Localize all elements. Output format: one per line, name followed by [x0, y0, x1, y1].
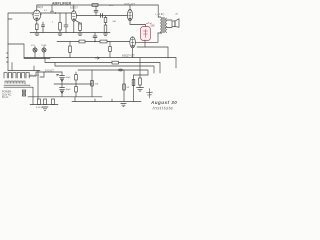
triode V2 envelope	[71, 11, 76, 22]
capacitor C4 decoupling	[94, 11, 98, 16]
resistor R12	[52, 99, 55, 105]
node dot C6	[94, 41, 95, 42]
wire: T1 leads right	[25, 76, 36, 87]
ground hatch R3	[58, 34, 62, 36]
wire: hatch left of C7	[57, 75, 59, 76]
wire: drop x140	[139, 58, 141, 78]
wire: input tick	[8, 18, 12, 20]
ground GND2	[42, 107, 48, 110]
capacitor C3 coupling	[51, 11, 54, 13]
svg-text:+35: +35	[175, 14, 179, 16]
resistor R11	[44, 99, 47, 105]
resistor R8b horizontal	[79, 40, 85, 43]
wire: mains pair	[33, 71, 38, 105]
fuse F1	[23, 90, 26, 96]
svg-text:40μF: 40μF	[66, 77, 72, 79]
resistor R2 V1 cathode	[36, 24, 39, 30]
T1 core lines	[4, 85, 30, 87]
wire: V1 cathode parts to bus	[35, 30, 43, 36]
choke on y70 line	[118, 69, 124, 72]
svg-text:August 30: August 30	[150, 100, 177, 105]
resistor R17	[132, 80, 135, 86]
capacitor C8 electrolytic	[60, 84, 65, 97]
wire: V3 cathode to red pot	[130, 21, 146, 27]
node junction dot	[55, 12, 57, 14]
wire: plate branch drop x52	[51, 5, 53, 11]
output transformer T2	[158, 17, 167, 33]
wire: V4 grid line left	[57, 41, 130, 43]
svg-text:Institute: Institute	[153, 106, 174, 111]
ground hatch R7	[104, 34, 108, 36]
wire: bottom bus y104.5	[30, 104, 58, 106]
svg-text:AMPLIFIER: AMPLIFIER	[52, 2, 72, 6]
svg-text:( ~ λ Φ ): ( ~ λ Φ )	[156, 13, 165, 16]
arrow on bus	[95, 57, 99, 59]
beam tube V3 envelope	[127, 10, 132, 21]
wire: rect top line	[44, 71, 62, 73]
wire: V2 cathode chain	[75, 20, 80, 25]
resistor R6 on rail	[92, 4, 98, 7]
resistor R5 V2 cathode	[79, 23, 82, 31]
wire: y47 line to right corner	[137, 47, 168, 58]
ground hatch R5	[78, 34, 82, 36]
V2 base shading	[73, 18, 75, 20]
resistor R7 vertical	[104, 16, 107, 33]
wire: tick x112	[111, 99, 113, 102]
svg-text:.5M: .5M	[112, 21, 116, 23]
resistor R3 vertical	[59, 13, 62, 33]
capacitor C5 coupling	[101, 14, 103, 18]
resistor R14	[75, 84, 78, 97]
wire: bottom bus y96.5	[28, 96, 102, 98]
wire: B+ top rail	[37, 4, 158, 6]
svg-text:6SQ7: 6SQ7	[37, 5, 44, 9]
svg-text:6SQ7-GT: 6SQ7-GT	[122, 54, 135, 58]
svg-text:40μF: 40μF	[66, 89, 72, 91]
wire: tick bus A-B x75	[74, 97, 76, 102]
capacitor C3b grid	[64, 13, 68, 33]
wire: V2 to V3 coupling	[76, 15, 127, 17]
svg-text:5K: 5K	[127, 87, 130, 89]
wire: ground bus y32.5 upper	[30, 32, 110, 34]
V3 base shading	[129, 18, 131, 20]
wire: V2 bottom to bus	[73, 21, 75, 32]
V1 electrodes	[32, 10, 42, 16]
svg-text:60 c/s: 60 c/s	[2, 96, 9, 99]
V3 electrodes	[129, 10, 132, 19]
resistor R15	[91, 81, 94, 87]
wire: bus y62.5	[45, 58, 160, 74]
wire: PS loop verticals	[92, 70, 134, 102]
svg-text:TONE: TONE	[41, 45, 47, 47]
svg-text:350-0-350: 350-0-350	[30, 75, 40, 77]
T1 primary winding	[5, 81, 25, 83]
mark cross flourish	[147, 89, 153, 99]
wire: rail corner down to output transformer	[157, 5, 159, 17]
svg-text:6V6-GT: 6V6-GT	[125, 2, 136, 6]
wire: lower-left branch	[8, 44, 24, 58]
wire: V1 plate to rail	[36, 5, 38, 10]
V4 electrodes	[131, 37, 134, 45]
svg-text:.1: .1	[52, 22, 55, 24]
svg-text:10K: 10K	[95, 84, 99, 86]
svg-text:320V: 320V	[109, 5, 114, 7]
wire: V1 cathode down	[36, 20, 38, 24]
wire: bus y66	[55, 63, 154, 74]
wire: main ground bus y58	[24, 58, 176, 69]
V2 electrodes	[72, 11, 75, 17]
wire: T1 top lead	[8, 63, 40, 71]
wire: border ticks	[7, 53, 9, 62]
resistor R10	[38, 99, 41, 105]
resistor R8 horizontal	[100, 40, 107, 43]
wire: secondary to speaker	[167, 20, 172, 28]
V4 base shading	[131, 45, 134, 47]
wire: V4 bottom to bus	[132, 48, 134, 58]
ground GND1	[137, 88, 144, 92]
wire: bottom bus B y101.5	[72, 101, 141, 103]
speaker LS1	[172, 19, 179, 27]
jack J1	[33, 47, 37, 58]
resistor R9	[139, 78, 142, 85]
wire: bus thick segment	[24, 58, 50, 60]
triode V1 envelope	[33, 10, 41, 20]
wire: mid line y84	[54, 83, 92, 85]
resistor R8d vertical	[109, 42, 112, 58]
wire: rect left drop	[40, 72, 44, 77]
wire: red pot bottom to y47	[144, 40, 146, 47]
wire: V3 plate to rail	[129, 5, 131, 10]
jack J2	[42, 47, 46, 58]
wire: bus y70	[78, 70, 148, 75]
capacitor C2 cathode bypass	[42, 22, 45, 30]
T1 secondary winding loops	[4, 73, 29, 78]
wire: left border lower	[7, 44, 9, 71]
svg-text:50K: 50K	[151, 25, 156, 28]
wire: V4 plate right to OPT	[135, 33, 158, 42]
V1 base shading	[35, 18, 38, 20]
svg-text:6.3V 5V: 6.3V 5V	[36, 107, 44, 109]
wire: junction drop x96	[95, 6, 97, 10]
wire: HV lead to rectifier	[36, 72, 44, 76]
wire: tick x95	[94, 99, 96, 102]
resistor R8c vertical	[69, 42, 72, 58]
switch S1 on line	[112, 61, 119, 64]
wire: input corner left border	[8, 13, 33, 44]
svg-text:6J5GT: 6J5GT	[70, 6, 78, 10]
capacitor C7 electrolytic	[60, 72, 65, 84]
wire: V1 plate coupling line	[40, 12, 71, 14]
capacitor C6	[93, 33, 97, 42]
resistor R13	[75, 72, 78, 84]
ground GND3	[121, 104, 126, 107]
wire: V2 plate up to rail	[73, 5, 75, 11]
svg-text:5Y3-GT: 5Y3-GT	[45, 70, 54, 73]
wire: y66 bus to transformer lead	[33, 66, 35, 71]
svg-text:0.1: 0.1	[44, 10, 48, 12]
beam tube V4 envelope	[130, 37, 136, 48]
resistor R16	[123, 84, 126, 90]
potentiometer VR1 (red highlighted)	[141, 23, 152, 41]
